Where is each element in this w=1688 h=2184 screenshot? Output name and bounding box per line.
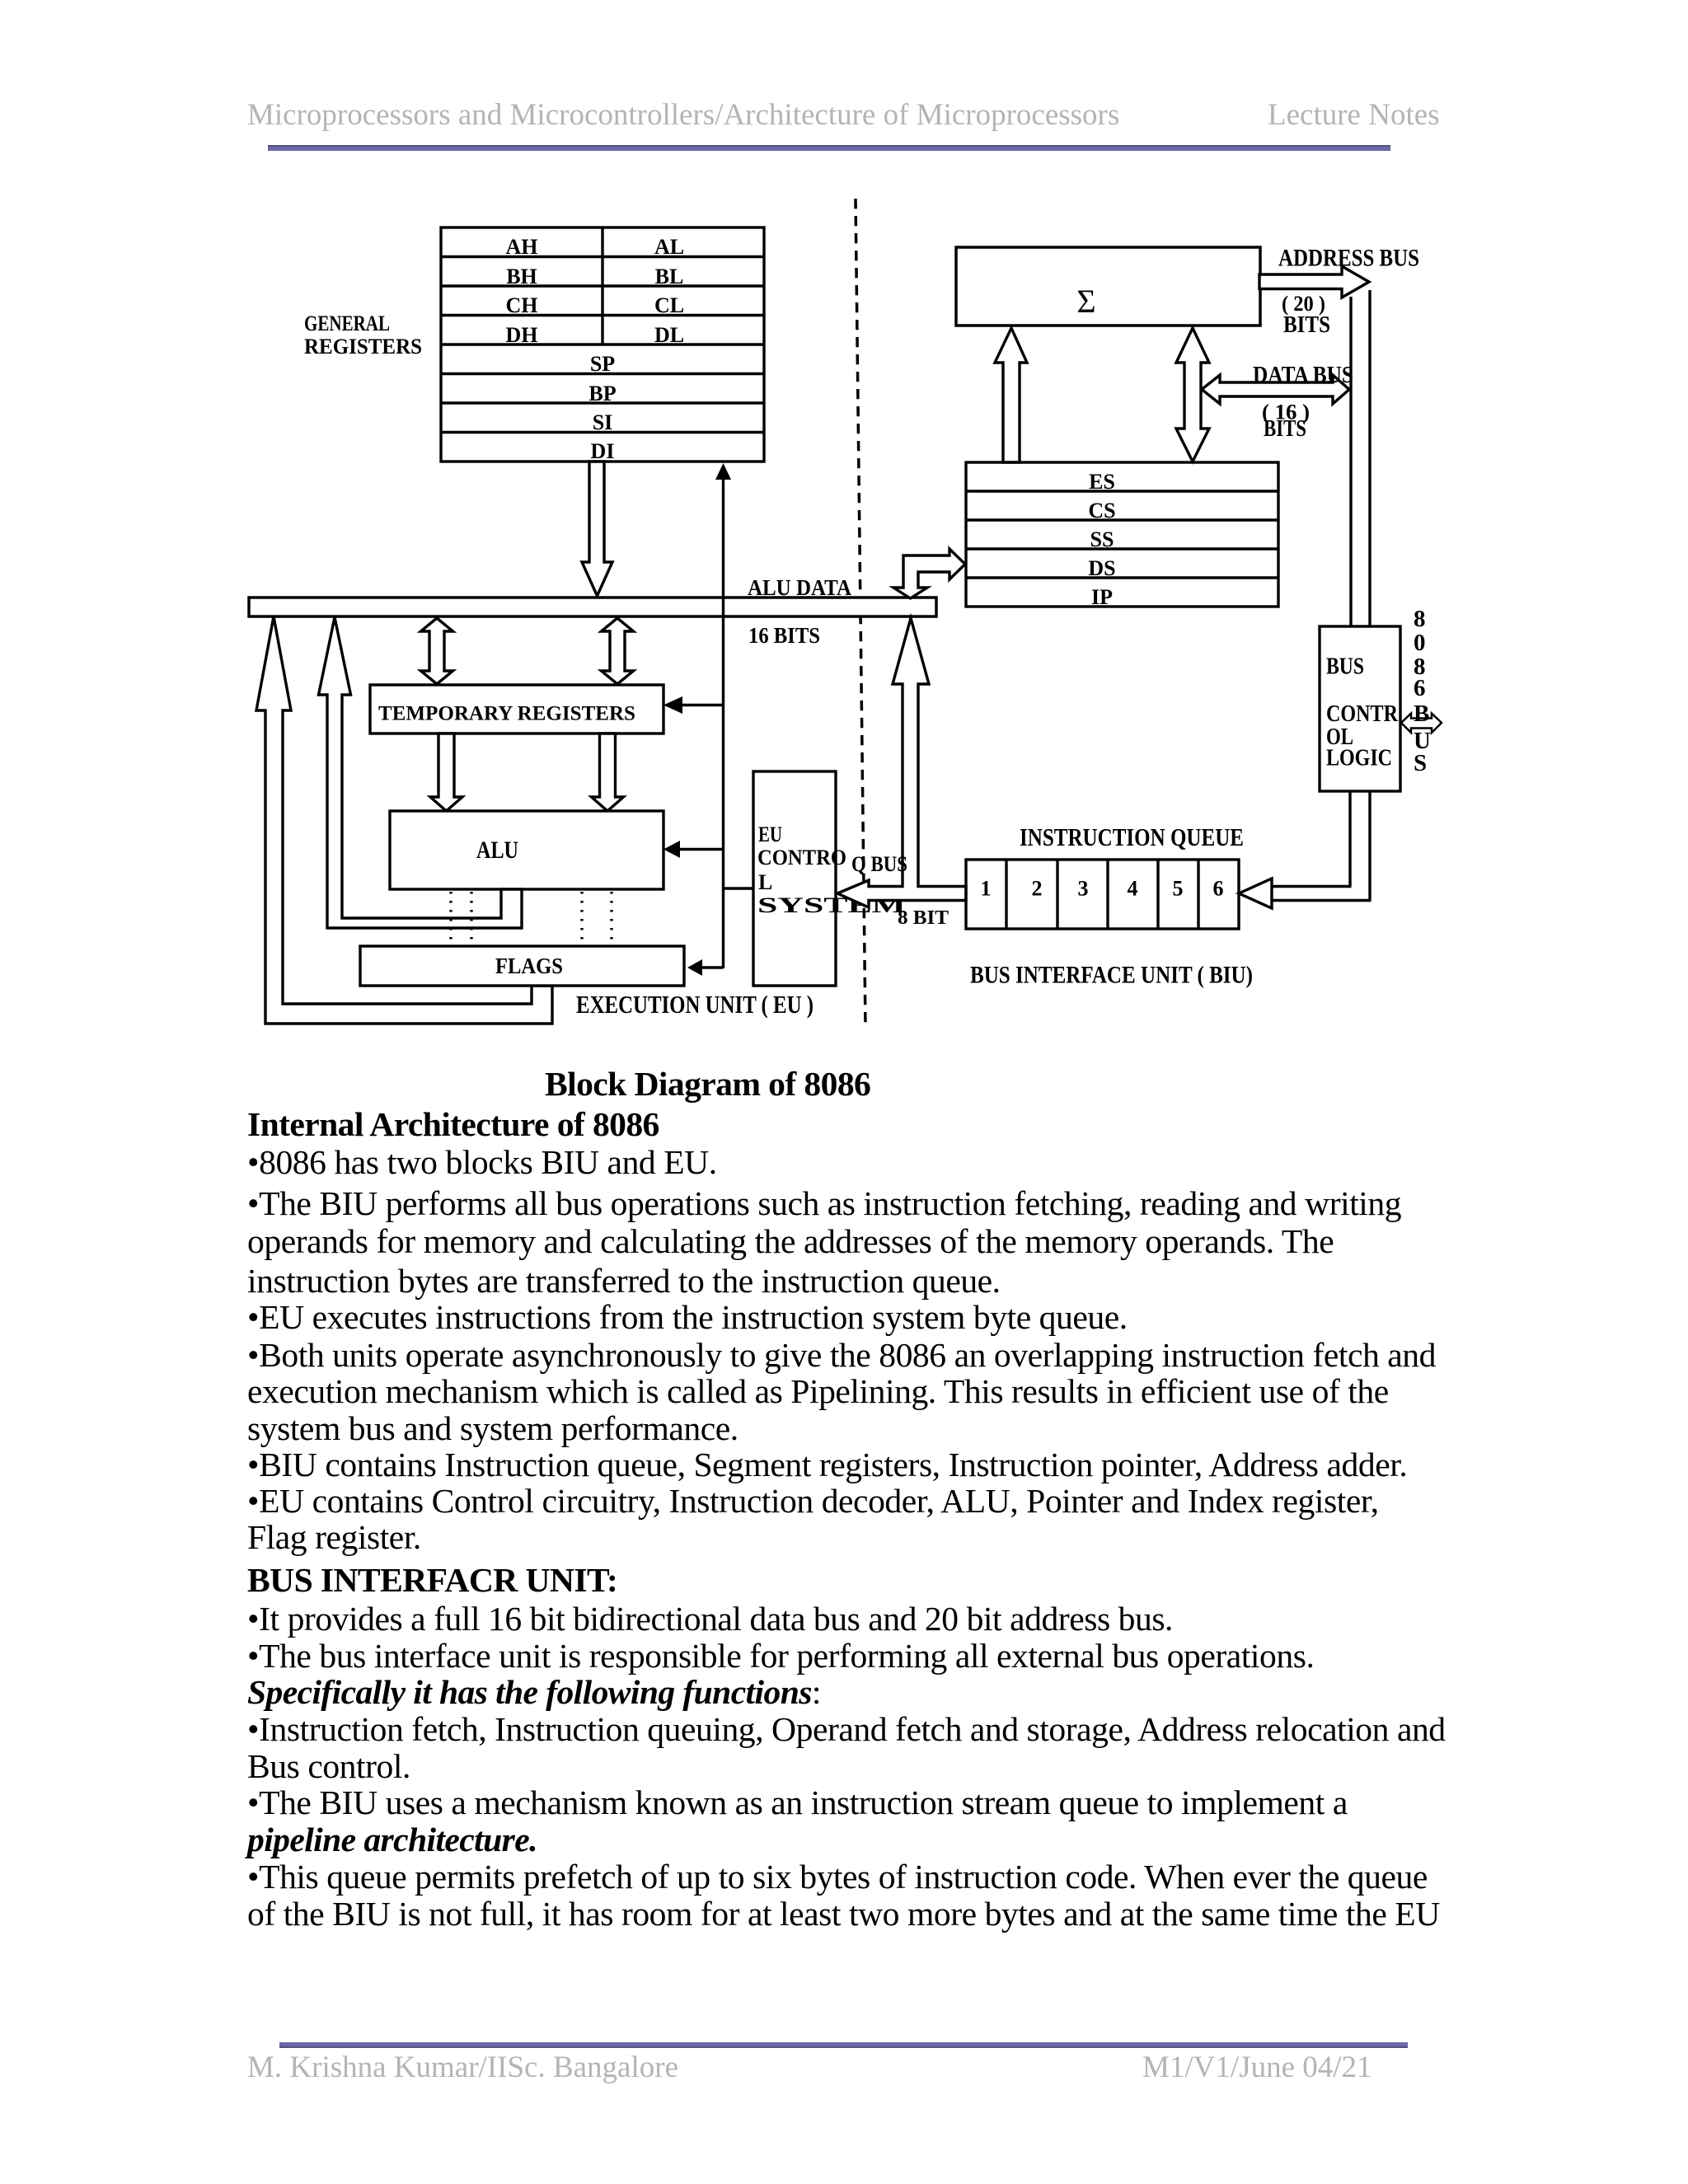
double arrow bus-temp registers (left) <box>421 618 453 684</box>
svg-text:BITS: BITS <box>1283 312 1330 338</box>
return path ALU to bus (hollow up arrow with L) <box>319 617 523 928</box>
DATA BUS double-headed hollow arrow <box>1202 375 1349 404</box>
svg-text:0: 0 <box>1414 630 1426 656</box>
svg-text:Q BUS: Q BUS <box>851 852 907 876</box>
svg-text:S: S <box>1414 750 1427 776</box>
svg-text:BL: BL <box>655 265 684 288</box>
instruction queue box <box>966 860 1239 929</box>
svg-text:BUS INTERFACE UNIT ( BIU): BUS INTERFACE UNIT ( BIU) <box>970 962 1253 989</box>
return path FLAGS to bus (hollow up arrow with L) <box>256 616 552 1024</box>
svg-text:AL: AL <box>654 235 684 259</box>
svg-text:16 BITS: 16 BITS <box>748 623 820 648</box>
temporary registers box <box>370 685 663 733</box>
8086 BUS vertical lettering <box>1414 606 1431 776</box>
small double-headed arrow 8086 bus <box>1401 714 1442 733</box>
svg-text:LOGIC: LOGIC <box>1326 745 1392 771</box>
EU control line into temp registers (filled arrowhead) <box>682 704 723 706</box>
ALU box <box>390 811 663 889</box>
header left text <box>247 97 1119 133</box>
dotted lines ALU to FLAGS <box>451 892 612 944</box>
svg-text:SP: SP <box>590 352 615 376</box>
header rule <box>268 145 1390 151</box>
svg-text:6: 6 <box>1414 675 1426 701</box>
GENERAL REGISTERS label <box>304 312 422 359</box>
svg-text:SI: SI <box>593 410 613 434</box>
BODY TEXT <box>545 1065 870 1103</box>
hollow up arrow segment table to sigma (left) <box>995 328 1027 462</box>
svg-text:TEMPORARY REGISTERS: TEMPORARY REGISTERS <box>378 703 635 725</box>
svg-text:CONTRO: CONTRO <box>757 846 846 869</box>
svg-text:3: 3 <box>1078 877 1089 901</box>
double arrow bus-temp registers (right) <box>602 618 634 684</box>
footer rule <box>279 2042 1408 2048</box>
svg-text:FLAGS: FLAGS <box>495 954 563 978</box>
svg-text:DS: DS <box>1088 556 1115 580</box>
svg-text:BH: BH <box>506 265 537 288</box>
svg-text:4: 4 <box>1128 877 1138 901</box>
svg-text:8 BIT: 8 BIT <box>898 907 949 929</box>
footer right text <box>1142 2050 1372 2085</box>
EU control system box <box>753 771 836 986</box>
general registers table <box>441 227 764 462</box>
sigma adder box <box>956 247 1260 326</box>
svg-text:2: 2 <box>1032 877 1043 901</box>
svg-text:DI: DI <box>591 439 615 463</box>
svg-text:ADDRESS BUS: ADDRESS BUS <box>1278 245 1419 272</box>
svg-text:B: B <box>1414 701 1429 727</box>
footer left text <box>247 2050 678 2085</box>
vertical 8086 bus lines from address arrow to bus control logic <box>1349 297 1352 626</box>
EU control line into FLAGS (filled arrowhead) <box>702 966 723 968</box>
ALU data bus <box>249 598 936 616</box>
svg-text:Σ: Σ <box>1076 283 1095 320</box>
Q bus hollow arrow: queue to EU control + branch up to ALU data bus <box>837 618 966 907</box>
svg-text:GENERAL: GENERAL <box>304 312 390 335</box>
svg-text:SS: SS <box>1090 527 1114 551</box>
svg-text:EU: EU <box>758 823 782 846</box>
queue cell numbers <box>981 877 1224 901</box>
bus control logic box <box>1320 626 1400 791</box>
svg-text:AH: AH <box>506 235 538 259</box>
connector bus to segment registers (hollow down arrow + right arrow into DS) <box>893 549 965 598</box>
svg-text:L: L <box>758 870 772 894</box>
FLAGS box <box>360 946 684 986</box>
svg-text:EXECUTION UNIT ( EU ): EXECUTION UNIT ( EU ) <box>576 990 814 1019</box>
svg-text:DL: DL <box>654 323 684 347</box>
hollow down arrow: registers to ALU data bus <box>582 462 612 596</box>
svg-text:INSTRUCTION QUEUE: INSTRUCTION QUEUE <box>1020 823 1244 851</box>
svg-text:ES: ES <box>1089 470 1115 494</box>
EU control line into ALU (filled arrowhead) <box>680 848 723 851</box>
segment registers table <box>966 462 1278 607</box>
DIAGRAM SVG <box>0 0 1688 1154</box>
svg-text:DATA BUS: DATA BUS <box>1253 362 1353 388</box>
svg-text:BITS: BITS <box>1264 416 1306 442</box>
ADDRESS BUS hollow arrow from sigma <box>1259 266 1369 298</box>
feedback line into register table with filled up arrowhead <box>722 476 724 968</box>
header right text <box>1268 97 1440 133</box>
hollow arrowhead into instruction queue <box>1239 879 1272 908</box>
svg-text:5: 5 <box>1173 877 1184 901</box>
svg-text:ALU DATA: ALU DATA <box>748 575 851 600</box>
vertical 8086 bus below control logic to queue arrow <box>1348 791 1351 887</box>
svg-text:BP: BP <box>588 382 616 405</box>
svg-text:6: 6 <box>1213 877 1224 901</box>
svg-text:BUS: BUS <box>1326 654 1364 680</box>
hollow down arrow temp registers to ALU (right) <box>592 733 624 811</box>
svg-text:REGISTERS: REGISTERS <box>304 335 422 359</box>
hollow double arrow segment table to sigma (right) <box>1176 328 1209 462</box>
EU/BIU dashed separator line <box>856 199 865 1027</box>
svg-text:CL: CL <box>654 293 684 317</box>
svg-text:8: 8 <box>1414 606 1426 632</box>
svg-text:1: 1 <box>981 877 992 901</box>
svg-text:DH: DH <box>506 323 538 347</box>
hollow down arrow temp registers to ALU (left) <box>430 733 462 811</box>
svg-text:CS: CS <box>1088 499 1115 523</box>
connector vertical EU line to EU control system box <box>723 887 753 889</box>
svg-text:ALU: ALU <box>476 837 518 864</box>
svg-text:CH: CH <box>506 293 538 317</box>
svg-text:IP: IP <box>1091 585 1113 609</box>
